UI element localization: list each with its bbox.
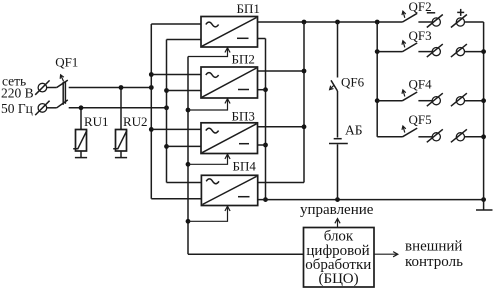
svg-text:QF2: QF2 [409, 0, 432, 14]
svg-text:БП2: БП2 [232, 52, 255, 67]
wire БП1 top input [151, 23, 201, 25]
wire line B (bottom mains wire from QF1 to bus B) [69, 105, 169, 110]
circuit breaker QF2 row [403, 11, 484, 27]
QF1 contact lever top pole [57, 80, 68, 87]
converter БП4 (AC/DC unit) [201, 175, 257, 205]
svg-text:QF6: QF6 [341, 75, 365, 90]
wire control branch to БП4 with arrow [188, 206, 228, 221]
plus bus (vertical DC rail) [302, 22, 307, 183]
polarity mark minus [427, 12, 435, 14]
wire БП1 plus output (top DC line) [258, 20, 403, 25]
minus bus (vertical, left DC rail) [263, 39, 268, 203]
wire БП4 top input [167, 182, 202, 184]
circuit breaker QF3 row [377, 41, 483, 57]
wire QF1 bottom stub [47, 107, 57, 109]
varistor RU2 [113, 85, 127, 157]
wire line T (top mains wire from QF1 to bus A) [69, 85, 154, 90]
wire battery to minus line [337, 144, 339, 199]
control bus C from БЦО [186, 57, 191, 255]
wire БП2 top input [151, 74, 201, 76]
wire БП2 minus output [258, 89, 266, 91]
QF1 terminal circle bottom (plug symbol) [35, 101, 49, 115]
svg-text:БП1: БП1 [237, 1, 260, 16]
wire control branch to БП1 with arrow [188, 48, 228, 57]
block БЦО (digital processing unit) [304, 228, 375, 288]
svg-text:БП4: БП4 [233, 159, 257, 174]
QF1 terminal circle top (plug symbol) [35, 80, 49, 94]
ground (chassis) under RU2 [115, 157, 127, 159]
wire БП3 bottom input [167, 145, 202, 147]
wire БП4 plus output [258, 182, 304, 184]
wire БП4 bottom input [151, 198, 201, 200]
wire БП2 bottom input [167, 90, 202, 92]
svg-text:50 Гц: 50 Гц [1, 101, 33, 116]
QF6 contact lever [331, 80, 338, 91]
wire БП3 minus output [258, 144, 266, 146]
circuit breaker QF4 row [377, 90, 483, 106]
ground terminal bottom right [476, 200, 493, 210]
wire БП3 plus output [258, 126, 305, 128]
svg-text:контроль: контроль [405, 254, 463, 270]
svg-text:QF1: QF1 [55, 55, 78, 70]
wire QF1 top stub [47, 87, 57, 89]
label: сеть 220 В 50 Гц (mains) [1, 74, 34, 117]
QF1 contact lever bottom pole [57, 100, 68, 108]
circuit breaker QF5 row [377, 126, 483, 142]
svg-text:АБ: АБ [345, 123, 363, 138]
wire БП2 plus output [258, 70, 305, 72]
wire QF6 to battery [337, 91, 339, 138]
converter БП1 (AC/DC unit) [201, 17, 258, 48]
varistor RU1 [73, 105, 87, 157]
wire control bus to БЦО [188, 253, 304, 255]
polarity mark plus [457, 9, 464, 16]
right vertical bus (output rail) [481, 22, 486, 200]
converter БП3 (AC/DC unit) [201, 123, 258, 154]
ground (chassis) under RU1 [75, 157, 87, 159]
svg-text:RU1: RU1 [84, 114, 109, 129]
wire minus line (bottom DC line to right) [258, 197, 486, 202]
label внешний контроль [405, 239, 463, 271]
wire БП3 top input [151, 128, 201, 130]
wire БП1 minus output [258, 38, 266, 40]
svg-text:220 В: 220 В [1, 86, 34, 101]
svg-text:RU2: RU2 [123, 114, 148, 129]
converter БП2 (AC/DC unit) [201, 67, 258, 98]
battery АБ (storage battery) [329, 139, 348, 144]
svg-text:управление: управление [300, 202, 374, 218]
circuit breaker QF6 branch wire top [337, 22, 339, 78]
QF1 mechanical link [63, 81, 65, 105]
svg-text:(БЦО): (БЦО) [319, 271, 359, 287]
svg-text:внешний: внешний [405, 239, 462, 255]
wire control branch to БП3 with arrow [188, 154, 228, 164]
bus B (vertical feeder, neutral) [164, 40, 169, 183]
svg-text:QF5: QF5 [409, 112, 432, 127]
feeder bus for QF2-QF5 [375, 22, 380, 137]
svg-text:QF4: QF4 [409, 76, 433, 91]
svg-text:БП3: БП3 [232, 109, 255, 124]
bus A (vertical feeder, phase) [149, 24, 154, 199]
wire внешний контроль arrow (right from БЦО) [374, 253, 398, 255]
wire БП1 bottom input [167, 39, 202, 41]
QF1 actuator arrow [61, 75, 64, 82]
wire управление arrow (up from БЦО) [337, 219, 339, 228]
wire control branch to БП2 with arrow [188, 99, 228, 110]
svg-text:QF3: QF3 [409, 28, 432, 43]
QF6 actuator arrow [330, 86, 334, 90]
